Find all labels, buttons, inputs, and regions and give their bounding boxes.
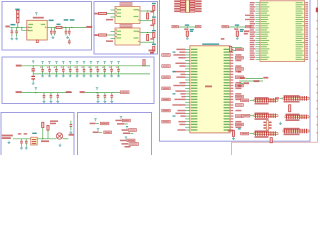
U5 right net text 29 xyxy=(235,126,241,128)
U5 left pin 16 xyxy=(185,90,190,92)
driver 2 value text xyxy=(234,28,238,30)
U5 left pin name 27 xyxy=(191,121,197,122)
U5 left pin 12 xyxy=(185,79,190,81)
net row1 wire xyxy=(245,77,263,79)
J4 left pin name 24 xyxy=(261,50,268,51)
U5 right pin name 22 xyxy=(224,107,230,108)
J4 left pin name 21 xyxy=(261,44,269,45)
U5 right pin name 17 xyxy=(224,93,230,94)
U5 left pin 10 xyxy=(185,73,190,75)
J4 left pin name 6 xyxy=(261,13,267,14)
label box RN3 xyxy=(241,99,249,102)
capacitor C6 xyxy=(68,28,71,36)
net label 3V3 rail xyxy=(16,65,22,67)
power label VIN xyxy=(15,9,19,11)
U5 right label box 11 xyxy=(235,76,243,79)
U5 left net text 6 xyxy=(175,63,185,64)
J4 left net text 23 xyxy=(250,48,256,49)
ground symbol rail 5 xyxy=(69,74,72,77)
RN1 text left row 2 xyxy=(174,3,180,5)
ground of C23 xyxy=(97,100,100,103)
pin stub U2 a xyxy=(111,9,116,11)
J4 left pin 23 xyxy=(255,48,260,50)
U5 right pin name 2 xyxy=(224,51,230,52)
resistor network RN7 top text xyxy=(255,130,269,132)
power flag above U1 xyxy=(35,12,37,15)
net label VDD cluster2 xyxy=(80,91,85,93)
sheet frame A (power supply) xyxy=(2,2,92,51)
U5 left pin 22 xyxy=(185,107,190,109)
crystal Y1 xyxy=(31,137,37,145)
resistor network RN8 top text xyxy=(284,128,300,130)
sheet frame D (oscillator) xyxy=(1,113,74,163)
U5 right label box 14 xyxy=(235,84,243,87)
J4 left pin 6 xyxy=(255,12,260,14)
U5 right label box 21 xyxy=(235,104,243,107)
resistor network RN8 body xyxy=(283,130,309,132)
ground of C25 xyxy=(110,100,113,103)
U5 left pin 13 xyxy=(185,82,190,84)
U5 left pin name 24 xyxy=(191,113,197,114)
U5 left pin 2 xyxy=(185,51,190,53)
resistor R2 left of U2 xyxy=(99,12,107,14)
net label XOUT xyxy=(2,137,11,139)
J4 left pin 24 xyxy=(255,50,260,52)
E1 stub 1 xyxy=(96,123,99,125)
U5 right pin number 11 xyxy=(231,77,234,78)
capacitor C2 xyxy=(15,27,18,37)
R9 value text line1 xyxy=(50,120,58,122)
U5 left pin 14 xyxy=(185,85,190,87)
value text C13 xyxy=(75,67,77,68)
RN1 text right row 5 xyxy=(195,10,201,12)
J4 left net text 21 xyxy=(250,44,255,45)
U5 right pin name 29 xyxy=(224,127,230,128)
E5 stub 1 xyxy=(127,140,130,142)
power flag bulk xyxy=(32,61,34,64)
R9 value text line2 xyxy=(50,123,56,125)
U5 left pin name 3 xyxy=(191,54,197,55)
FB1 label xyxy=(57,24,61,25)
pin stub U1 bottom xyxy=(36,40,38,43)
resistor network RN8 bottom text xyxy=(284,134,300,136)
U5 right pin number 25 xyxy=(231,115,234,116)
J4 right pin name 10 xyxy=(296,21,304,22)
pin stub U3 b xyxy=(111,38,116,40)
J4 left pin name 1 xyxy=(261,2,269,3)
U5 right pin number 10 xyxy=(231,74,234,75)
J4 left pin name 18 xyxy=(261,38,267,39)
capacitor C22 xyxy=(57,93,60,100)
U5 right pin name 27 xyxy=(224,121,230,122)
E4 text row 1 xyxy=(122,129,129,131)
U5 right net text 23 xyxy=(235,110,241,112)
J4 left net text 27 xyxy=(250,57,255,58)
J4 right pin name 27 xyxy=(296,57,302,58)
J4 left net text 18 xyxy=(250,38,254,39)
J4 right pin name 5 xyxy=(296,11,303,12)
resistor network RN6 top text xyxy=(286,114,300,116)
J4 left net text 22 xyxy=(250,46,254,47)
J4 right pin number 4 xyxy=(305,8,308,9)
chain red text 2 xyxy=(150,25,153,27)
U5 left pin name 4 xyxy=(191,57,197,58)
U5 left net text 21 xyxy=(172,104,185,105)
driver 1 net label xyxy=(172,25,178,27)
resistor network RN7 bottom text xyxy=(255,136,269,138)
J4 right pin number 21 xyxy=(305,44,308,45)
driver 2 teal label xyxy=(235,24,239,25)
U5 designator text inside xyxy=(205,86,212,88)
resistor network RN5 resistor elements xyxy=(255,113,276,118)
J4 left net text 20 xyxy=(250,42,255,43)
U5 left pin 20 xyxy=(185,101,190,103)
J4 right pin name 19 xyxy=(296,40,302,41)
driver 1 right label xyxy=(195,25,201,27)
chain label T4 xyxy=(152,44,156,45)
power flag 5 rail xyxy=(69,61,71,64)
power flag 10 rail xyxy=(104,61,106,64)
E2 stub 1 xyxy=(122,120,125,122)
U5 left pin 6 xyxy=(185,62,190,64)
J4 left pin 25 xyxy=(255,52,260,54)
resistor below U5 corner xyxy=(232,131,234,137)
J4 left pin 3 xyxy=(255,6,260,8)
E1 label box 1 xyxy=(100,122,109,125)
chain wire xyxy=(153,38,155,44)
power flag E3 xyxy=(97,128,99,131)
E5 text row 1 xyxy=(120,140,127,142)
E3 text row 1 xyxy=(93,132,99,134)
J4 right pin number 26 xyxy=(305,55,308,56)
wire to RN4 xyxy=(280,97,284,99)
U5 left pin name 29 xyxy=(191,127,197,128)
pin stub U2 b xyxy=(111,16,116,18)
driver 1 teal text 3 xyxy=(190,31,193,32)
chain red text 1 xyxy=(150,11,153,13)
isolated net text mid xyxy=(244,30,250,32)
net text below J4 xyxy=(238,71,241,73)
J4 left pin 11 xyxy=(255,23,260,25)
J4 left pin name 14 xyxy=(261,29,267,30)
junction on wire A3 xyxy=(65,27,66,28)
resistor R3 left of U3 xyxy=(99,34,107,36)
ground left cluster xyxy=(8,141,11,144)
U5 right pin number 13 xyxy=(231,82,234,83)
U5 right pin number 18 xyxy=(231,96,234,97)
U5 right pin number 19 xyxy=(231,99,234,100)
U5 right pin name 25 xyxy=(224,115,230,116)
J4 left net text 17 xyxy=(250,36,255,37)
value text C16 xyxy=(95,67,97,68)
U5 left net text 28 xyxy=(179,124,185,125)
RN1 text right row 3 xyxy=(195,5,201,7)
RN1 resistor right row 1 xyxy=(190,0,195,2)
U5 left pin name 6 xyxy=(191,63,197,64)
J4 right pin name 18 xyxy=(296,38,304,39)
U5 right label box 1 xyxy=(235,48,243,51)
J4 right pin number 13 xyxy=(305,27,308,28)
E4 label box 1 xyxy=(129,129,137,132)
J4 right pin name 3 xyxy=(296,6,302,7)
chain resistor RC4 xyxy=(153,46,155,51)
J4 left pin name 2 xyxy=(261,4,267,5)
resistor network RN3 bottom text xyxy=(255,103,269,105)
U5 left pin name 16 xyxy=(191,90,197,91)
U1 name text xyxy=(33,17,44,19)
U5 right net text 7 xyxy=(235,65,241,67)
U5 left label box 15 xyxy=(162,87,170,90)
power flag 8 rail xyxy=(90,61,92,64)
U5 right pin number 16 xyxy=(231,90,234,91)
U5 left pin 19 xyxy=(185,98,190,100)
U5 left teal mark 2 xyxy=(173,51,176,52)
ground of C7b xyxy=(32,82,35,85)
J4 left pin name 20 xyxy=(261,42,268,43)
U5 left pin name 13 xyxy=(191,82,197,83)
chain label T2 xyxy=(152,16,156,17)
U5 right label box 28 xyxy=(235,123,243,126)
RN1 resistor left row 1 xyxy=(180,0,185,2)
resistor network RN3 top text xyxy=(255,97,269,99)
J4 left net text 3 xyxy=(250,6,256,7)
ground symbol rail 12 xyxy=(117,74,120,77)
ground symbol rail 9 xyxy=(96,74,99,77)
resistor network RN6 resistor elements xyxy=(286,115,307,120)
wire to RN5 xyxy=(250,115,255,117)
resistor network RN6 bottom text xyxy=(286,119,300,121)
driver 1 resistor xyxy=(186,31,188,36)
U5 right pin name 19 xyxy=(224,99,230,100)
driver 2 net label xyxy=(222,25,228,27)
resistor R8 at rail end xyxy=(143,60,145,66)
J4 left net text 4 xyxy=(250,8,255,9)
value text C18 xyxy=(109,67,111,68)
J4 right pin number 12 xyxy=(305,25,308,26)
U5 left pin 21 xyxy=(185,104,190,106)
E4 text row 2 xyxy=(123,133,130,135)
U5 left label box 7 xyxy=(162,65,170,68)
capacitor C23 xyxy=(97,93,100,100)
resistor R10 pulldown xyxy=(147,13,149,19)
ground of C2 xyxy=(15,37,18,40)
U5 right pin name 23 xyxy=(224,110,230,111)
cluster2 junction xyxy=(96,92,97,93)
RN1 text left row 1 xyxy=(174,0,180,2)
net label bottom right of B second xyxy=(150,52,154,54)
wire A3 xyxy=(47,27,86,29)
U5 left pin name 11 xyxy=(191,77,197,78)
resistor R10 xyxy=(47,125,49,130)
U5 left net text 9 xyxy=(172,71,185,72)
U5 right pin name 11 xyxy=(224,77,230,78)
U5 right pin name 15 xyxy=(224,88,230,89)
wire A1 xyxy=(10,26,27,28)
U5 right pin number 26 xyxy=(231,118,234,119)
resistor network RN3 resistor elements xyxy=(255,98,276,103)
E2 text row 2 xyxy=(117,123,125,125)
decoupling capacitor C8 xyxy=(41,66,44,74)
power flag 2 rail xyxy=(48,61,50,64)
cluster2 power flag xyxy=(96,87,98,90)
sheet frame F (MCU and connector) xyxy=(160,0,311,141)
U5 left net text 1 xyxy=(176,49,185,50)
ground of C30 xyxy=(20,146,23,149)
U5 left label box 11 xyxy=(162,76,170,79)
RN1 text right row 2 xyxy=(195,3,201,5)
U5 right pin name 5 xyxy=(224,60,230,61)
J4 left pin name 3 xyxy=(261,6,270,7)
U5 left net text 10 xyxy=(180,74,185,75)
J4 right pin name 12 xyxy=(296,25,305,26)
J4 left net text 7 xyxy=(245,15,255,16)
net row4 text xyxy=(238,85,241,87)
U5 left net text 17 xyxy=(180,93,185,94)
U5 left net text 3 xyxy=(173,54,185,55)
wire R10 down xyxy=(47,130,49,139)
chain resistor RC2 xyxy=(153,19,155,24)
J4 right pin number 1 xyxy=(305,2,308,3)
net label OUT xyxy=(69,134,74,136)
value text C8 xyxy=(40,67,42,68)
RN1 resistor left row 4 xyxy=(180,8,185,10)
resistor network RN3 body xyxy=(254,99,278,101)
wire into U2 pin xyxy=(107,13,116,15)
U5 left net text 27 xyxy=(178,121,185,122)
U5 left pin name 2 xyxy=(191,51,197,52)
RN1 text right row 4 xyxy=(195,8,201,10)
J4 right pin number 24 xyxy=(305,50,308,51)
resistor network RN1 body xyxy=(186,0,189,13)
U2 name text line2 xyxy=(120,4,133,5)
chain label T1 xyxy=(152,3,156,4)
resistor network RN5 body xyxy=(254,115,278,117)
J4 left pin name 22 xyxy=(261,46,267,47)
cluster2 wire xyxy=(85,92,120,94)
power flag 11 rail xyxy=(110,61,112,64)
J4 right pin name 1 xyxy=(296,2,303,3)
J4 left pin 1 xyxy=(255,2,260,4)
wire to RN7 xyxy=(250,133,255,135)
U5 right pin number 7 xyxy=(231,65,234,66)
U5 left pin name 28 xyxy=(191,124,197,125)
U5 top right wire xyxy=(230,47,242,49)
E3 label box 1 xyxy=(104,131,112,134)
net label DC out xyxy=(86,26,92,28)
ground of C3 C4 xyxy=(52,36,55,39)
net stub marks right edge xyxy=(316,20,317,134)
U5 left pin name 19 xyxy=(191,99,197,100)
power flag E1 xyxy=(94,118,96,121)
ground symbol rail 4 xyxy=(62,74,65,77)
chain resistor RC1 xyxy=(153,5,155,10)
sheet frame E (net labels) xyxy=(78,113,152,163)
wire R8 to rail xyxy=(144,65,150,67)
isolated net text mid 2 xyxy=(244,33,248,35)
U5 right label box 18 xyxy=(235,95,243,98)
J4 left pin name 26 xyxy=(261,55,267,56)
U5 left net text 7 xyxy=(179,65,185,66)
U5 left pin name 12 xyxy=(191,79,197,80)
IC U2 xyxy=(115,7,140,24)
U5 right pin number 21 xyxy=(231,104,234,105)
U5 left net text 13 xyxy=(179,82,185,83)
J4 right pin number 6 xyxy=(305,13,308,14)
resistor network RN4 body xyxy=(283,97,309,99)
decoupling capacitor C12 xyxy=(69,66,72,74)
J4 right pin number 7 xyxy=(305,15,308,16)
power flag 12 rail xyxy=(117,61,119,64)
U5 right net text 15 xyxy=(235,88,241,90)
value text C15 xyxy=(88,67,90,68)
U5 left pin name 21 xyxy=(191,104,197,105)
U5 right pin name 20 xyxy=(224,102,230,103)
resistor network RN5 top text xyxy=(255,113,269,115)
J4 right pin number 10 xyxy=(305,21,308,22)
net label PWR xyxy=(5,26,9,28)
J4 left pin 22 xyxy=(255,46,260,48)
E5 text row 2 xyxy=(122,143,129,145)
J4 right pin name 15 xyxy=(296,32,302,33)
U5 right pin name 18 xyxy=(224,96,230,97)
U5 left pin name 9 xyxy=(191,71,197,72)
U3 name text line2 xyxy=(120,26,133,27)
U5 right pin name 1 xyxy=(224,49,230,50)
driver 2 wire xyxy=(228,26,245,28)
label C12 above wire A3 xyxy=(70,19,75,21)
red component top right corner of U5 xyxy=(229,46,231,51)
J4 left pin name 4 xyxy=(261,8,268,9)
ground symbol rail 1 xyxy=(41,74,44,77)
resistor network RN4 resistor elements xyxy=(284,96,307,101)
U5 right pin number 15 xyxy=(231,88,234,89)
J4 right pin number 14 xyxy=(305,29,308,30)
value text above C31 xyxy=(24,133,28,134)
IC U3 xyxy=(115,28,140,45)
power flag 6 rail xyxy=(76,61,78,64)
driver 2 right label xyxy=(245,25,251,27)
J4 left pin 28 xyxy=(255,58,260,60)
wire A2 stub xyxy=(22,27,27,30)
U5 left net text 25 xyxy=(180,115,185,116)
J4 right pin number 27 xyxy=(305,57,308,58)
label C15 above wire A3 xyxy=(49,20,54,22)
U5 ground bottom xyxy=(232,137,235,140)
power flag 1 rail xyxy=(41,61,43,64)
capacitor C21 xyxy=(50,93,53,100)
U5 left pin name 5 xyxy=(191,60,197,61)
J4 left pin name 7 xyxy=(261,15,270,16)
U5 left pin name 20 xyxy=(191,102,197,103)
power flag E2 xyxy=(120,116,122,119)
capacitor C30 xyxy=(20,139,23,146)
U5 right pin name 12 xyxy=(224,79,230,80)
J4 left pin 16 xyxy=(255,33,260,35)
RN1 resistor right row 4 xyxy=(190,8,195,10)
resistor network RN5 bottom text xyxy=(255,118,269,120)
pin stub U3 a xyxy=(111,31,116,33)
U5 right pin name 7 xyxy=(224,65,230,66)
U5 left net text 19 xyxy=(174,99,185,100)
ground of C5 C6 xyxy=(66,36,69,39)
label box RN5 xyxy=(242,114,250,117)
U5 right pin name 26 xyxy=(224,118,230,119)
U5 right label box 8 xyxy=(235,68,243,71)
U5 left pin name 15 xyxy=(191,88,197,89)
chain red text 3 xyxy=(150,38,153,40)
fuse F1 xyxy=(17,10,19,22)
J4 left net text 11 xyxy=(250,23,255,24)
